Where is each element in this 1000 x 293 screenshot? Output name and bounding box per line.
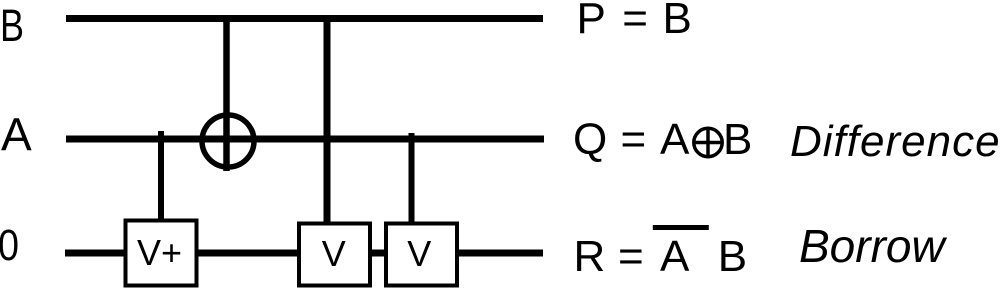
- svg-text:B: B: [0, 0, 24, 51]
- control line B to XOR target: [223, 18, 230, 171]
- svg-text:R: R: [574, 232, 606, 281]
- svg-text:0: 0: [0, 221, 19, 270]
- svg-text:V: V: [322, 233, 346, 274]
- gate box V (controlled by B): [299, 224, 370, 286]
- wire A: [66, 136, 544, 143]
- oplus horizontal bar: [695, 141, 722, 145]
- svg-text:=: =: [621, 115, 647, 164]
- svg-text:B: B: [718, 232, 747, 281]
- wire B: [66, 15, 543, 22]
- svg-text:Difference: Difference: [790, 117, 1000, 166]
- gate box V+: [126, 221, 197, 286]
- oplus circle in Q label: [694, 128, 722, 156]
- svg-text:=: =: [622, 0, 648, 43]
- svg-text:A: A: [1, 109, 32, 161]
- svg-text:B: B: [723, 115, 752, 164]
- svg-text:Borrow: Borrow: [799, 220, 947, 272]
- svg-text:Q: Q: [573, 115, 607, 164]
- oplus vertical bar: [706, 129, 710, 156]
- svg-text:A: A: [660, 115, 690, 164]
- svg-text:V: V: [407, 233, 431, 274]
- control line A to second V gate: [409, 133, 415, 223]
- gate box V (controlled by A): [386, 224, 457, 286]
- svg-text:=: =: [618, 232, 644, 281]
- svg-text:V+: V+: [137, 232, 182, 273]
- XOR target on A: [202, 115, 254, 167]
- wire 0: [65, 250, 543, 257]
- svg-text:B: B: [663, 0, 692, 43]
- svg-text:A: A: [660, 232, 690, 281]
- control line B to V gate: [324, 18, 331, 223]
- svg-text:P: P: [577, 0, 606, 43]
- NOT overbar on A: [653, 225, 709, 230]
- control line A to V+ gate: [158, 131, 164, 220]
